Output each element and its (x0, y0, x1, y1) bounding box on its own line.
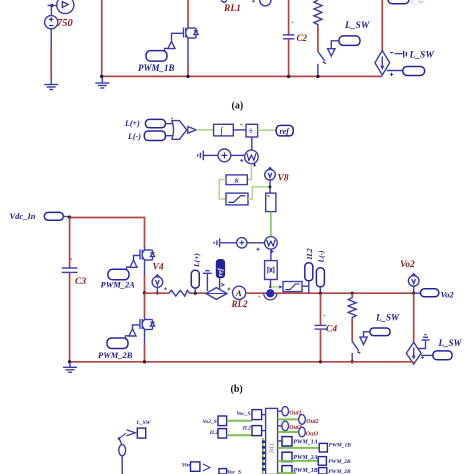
ground sideways (214, 238, 237, 247)
wire (187, 65, 189, 76)
probe L(+) vertical (191, 270, 199, 288)
wire (165, 135, 172, 137)
dll block U10 (266, 408, 278, 474)
wire pins column (262, 438, 265, 474)
controlled source D2 (206, 288, 227, 300)
probe partial top (388, 0, 409, 4)
wire (50, 29, 52, 48)
svg-text:(b): (b) (231, 384, 243, 395)
svg-text:PWM_2B: PWM_2B (328, 459, 351, 465)
ground mini (418, 335, 430, 349)
ground sideways (198, 151, 218, 161)
gating wire (134, 256, 141, 260)
wire (270, 280, 272, 288)
transistor Q1 (184, 25, 199, 41)
wire (227, 420, 252, 422)
wire (278, 410, 283, 412)
capacitor C4 (315, 315, 327, 330)
current probe I1 (57, 0, 74, 14)
probe Out1 (282, 407, 289, 416)
probe L_SW (433, 351, 452, 360)
dot (259, 296, 261, 298)
wire (48, 5, 58, 7)
ammeter A1 (233, 286, 246, 299)
plus (390, 73, 393, 76)
link square L_SW (137, 428, 145, 438)
svg-text:PWM_2B: PWM_2B (98, 350, 133, 360)
pin square in1 (252, 410, 262, 420)
node (351, 360, 354, 363)
probe L(-) (144, 131, 165, 141)
svg-text:L(+): L(+) (124, 119, 140, 128)
transistor Q2B (140, 317, 155, 333)
node (68, 216, 72, 220)
svg-text:L_SW: L_SW (375, 313, 400, 323)
plus mark (253, 163, 256, 166)
svg-text:L_SW: L_SW (136, 420, 152, 426)
label flag ref vertical (216, 260, 224, 292)
wire (288, 0, 290, 35)
svg-text:Voc_S: Voc_S (237, 411, 251, 417)
node (194, 292, 197, 295)
svg-text:Vo2_S: Vo2_S (203, 419, 217, 425)
probe L_SW (370, 328, 390, 336)
svg-text:Voc_S: Voc_S (227, 470, 241, 474)
probe L(+) (145, 119, 165, 127)
wire bus b (70, 361, 414, 363)
probe L_SW (339, 36, 360, 46)
wire (50, 7, 52, 16)
wire (262, 430, 266, 432)
wire (270, 212, 272, 237)
wire (120, 440, 123, 445)
wire (69, 273, 71, 362)
summer S1 (218, 149, 231, 162)
dc source V1 (45, 16, 58, 29)
node (68, 360, 71, 363)
svg-text:C2: C2 (297, 33, 308, 43)
svg-text:IL2: IL2 (305, 248, 314, 261)
wire (121, 456, 123, 474)
label flag ref (276, 125, 293, 135)
ground inverted (203, 271, 212, 291)
link square Vo2_S (218, 416, 227, 426)
summer SUM1 (172, 121, 187, 140)
gating block G1 (172, 33, 184, 41)
link square (319, 468, 327, 474)
svg-text:RL1: RL1 (223, 4, 241, 14)
plus mark (270, 250, 273, 253)
node (319, 292, 322, 295)
svg-text:PWM_1B: PWM_1B (329, 442, 352, 448)
link square IL2 (218, 429, 227, 438)
svg-text:Out3: Out3 (306, 431, 318, 437)
wire (50, 47, 52, 80)
svg-text:Vo2: Vo2 (441, 290, 455, 300)
wire (271, 286, 280, 288)
wire (194, 288, 196, 293)
wire (70, 218, 145, 248)
flag arrow (203, 464, 210, 471)
PWM source PWM_2A (108, 260, 137, 280)
node (100, 75, 103, 78)
wire (270, 249, 272, 260)
wire (308, 281, 310, 293)
gain block (188, 127, 196, 134)
link square Vin (191, 462, 200, 471)
wire (302, 285, 309, 287)
node (186, 75, 189, 78)
capacitor C3 (62, 258, 78, 272)
source circle (119, 445, 126, 456)
probe Out2 (299, 415, 306, 425)
svg-text:C4: C4 (326, 325, 337, 335)
svg-text:V4: V4 (153, 262, 164, 272)
wire (144, 263, 146, 276)
node (143, 360, 146, 363)
wire (395, 53, 403, 55)
ground (95, 78, 109, 89)
link square PWM_1B (282, 466, 292, 474)
svg-text:(a): (a) (232, 101, 244, 112)
probe Out3 (299, 427, 306, 437)
wire (144, 344, 146, 362)
PWM source PWM_1B (146, 41, 175, 61)
svg-text:L(-): L(-) (127, 132, 141, 141)
node (319, 360, 322, 363)
svg-text:L_SW: L_SW (344, 21, 370, 31)
svg-text:RL2: RL2 (231, 299, 249, 309)
probe IL2 vertical (305, 263, 313, 281)
wire (269, 180, 271, 193)
svg-text:ref: ref (217, 268, 225, 277)
wire (251, 137, 253, 150)
wire (413, 293, 415, 342)
probe (403, 67, 425, 76)
wire (196, 129, 213, 131)
node dot (241, 124, 243, 126)
wire (262, 414, 266, 416)
wire (144, 275, 146, 293)
node dot (171, 118, 173, 120)
wire (247, 164, 251, 180)
plus mark (421, 356, 424, 359)
svg-text:A: A (235, 288, 242, 298)
node N1 (50, 4, 53, 7)
wire (421, 354, 433, 356)
link square (219, 469, 227, 474)
probe L(-) vertical (316, 268, 324, 287)
link square (319, 443, 327, 452)
wire (145, 292, 170, 294)
gate triangle SW1 (328, 41, 339, 56)
wire (258, 129, 277, 131)
wire (190, 292, 207, 294)
wire (320, 329, 322, 362)
svg-text:PWM_2B: PWM_2B (328, 469, 351, 474)
transistor Q2A (140, 247, 155, 263)
resistor fragment (221, 1, 227, 3)
wire (278, 425, 283, 427)
plus mark (240, 159, 243, 162)
switch SW2 (352, 342, 360, 362)
wire (351, 319, 353, 341)
node (316, 75, 319, 78)
svg-text:PWM_1A: PWM_1A (293, 439, 317, 445)
wire (278, 431, 299, 433)
limiter block U5 (226, 193, 248, 205)
wire (319, 287, 321, 293)
integrator U2 (214, 124, 234, 137)
hop node (264, 289, 277, 300)
svg-text:DLL: DLL (270, 441, 276, 454)
wire (187, 0, 189, 26)
svg-text:L(-): L(-) (317, 250, 326, 264)
wire (156, 287, 158, 293)
wire (320, 293, 322, 325)
svg-text:L_SW: L_SW (409, 51, 435, 61)
PWM source PWM_2B (107, 329, 136, 349)
svg-text:K: K (234, 177, 240, 184)
wire (227, 434, 263, 436)
arrow (279, 285, 282, 288)
svg-text:Out2: Out2 (306, 419, 318, 425)
plus mark (227, 288, 230, 291)
svg-text:PWM_1B: PWM_1B (293, 468, 317, 474)
ground (63, 362, 77, 373)
link node L_SW (404, 51, 407, 58)
switch SW1 (318, 52, 326, 77)
wire (381, 0, 383, 51)
wire (278, 418, 299, 420)
plus mark (256, 248, 259, 251)
wire (278, 447, 320, 449)
svg-text:L_SW: L_SW (438, 338, 463, 348)
svg-text:IL2: IL2 (209, 430, 219, 436)
capacitor C2 (283, 22, 295, 39)
wire (219, 180, 226, 199)
wire (278, 460, 319, 462)
resistor RL2 (169, 290, 190, 296)
svg-text:Vdc_In: Vdc_In (10, 211, 36, 221)
wire (233, 129, 246, 131)
gain block K (226, 175, 247, 185)
node (269, 185, 272, 188)
link square (318, 457, 326, 466)
svg-text:÷: ÷ (248, 127, 253, 137)
wire (288, 39, 290, 76)
current source CS2 (406, 342, 421, 364)
wire (247, 242, 265, 244)
wire (413, 286, 415, 293)
limiter block U7 (283, 282, 302, 292)
wire (278, 472, 296, 474)
wire (231, 154, 245, 156)
wire (317, 26, 319, 51)
wire (69, 218, 71, 269)
svg-text:L(+): L(+) (192, 253, 201, 268)
svg-text:750: 750 (57, 18, 74, 29)
svg-text:Vin: Vin (182, 463, 190, 469)
wire (248, 187, 270, 199)
wire (101, 0, 103, 76)
minus (390, 52, 393, 54)
node (143, 291, 146, 294)
node (412, 292, 415, 295)
wire bus (101, 75, 382, 77)
wire (246, 292, 414, 294)
gate triangle SW2 (360, 332, 370, 345)
probe Out2b (282, 421, 289, 431)
probe Vdc_In (44, 212, 63, 220)
gating wire (133, 325, 141, 329)
abs block (265, 261, 278, 280)
node (156, 292, 159, 295)
ammeter A0 (252, 0, 271, 6)
wire (387, 70, 403, 72)
svg-text:V8: V8 (278, 174, 289, 184)
svg-text:PWM_2A: PWM_2A (101, 279, 136, 289)
limiter circle U6 (265, 237, 278, 250)
resistor RL1 (314, 0, 322, 27)
current source CS1 (375, 51, 390, 75)
node (351, 292, 354, 295)
wire (144, 333, 146, 346)
svg-text:L_sw: L_sw (410, 0, 424, 6)
resistor block R1 (266, 193, 276, 212)
wire (414, 292, 421, 294)
limiter circle U4 (245, 150, 259, 164)
voltmeter V4 (152, 275, 163, 288)
svg-text:IL2: IL2 (242, 426, 252, 432)
wire (187, 41, 189, 66)
wire (63, 216, 70, 218)
plus mark (164, 287, 167, 290)
node (269, 286, 272, 289)
divider U3 (246, 124, 258, 137)
resistor Rload (348, 298, 356, 320)
voltmeter Vo2 (408, 274, 419, 287)
node (118, 437, 121, 440)
svg-text:ref: ref (280, 127, 291, 136)
ground (44, 79, 58, 90)
probe Vo2 (421, 289, 439, 297)
link square PWM_2A (282, 452, 292, 461)
svg-text:C3: C3 (75, 277, 86, 287)
svg-text:PWM_1B: PWM_1B (138, 63, 175, 73)
flag arrow (127, 430, 136, 436)
voltmeter V8 (265, 168, 276, 181)
svg-text:Vo2: Vo2 (400, 260, 415, 270)
pin square in2 (252, 426, 262, 436)
wire (278, 440, 282, 442)
wire (144, 293, 146, 317)
summer S2 (237, 238, 247, 248)
wire (351, 293, 353, 298)
wire (165, 123, 172, 125)
link square PWM_1A (282, 437, 292, 446)
node (287, 75, 290, 78)
